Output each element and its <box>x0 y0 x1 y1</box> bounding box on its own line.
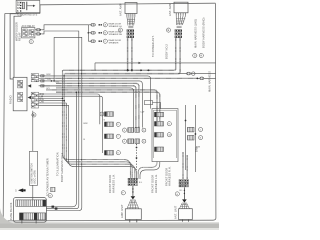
fan into ant unit box <box>179 203 189 209</box>
svg-text:MAIN HARNESS (LHD): MAIN HARNESS (LHD) <box>194 19 198 48</box>
neck marks 2 <box>177 26 182 27</box>
tee vertical node <box>87 25 89 41</box>
fuse block outline <box>13 198 46 223</box>
svg-text:(ACC or ON): (ACC or ON) <box>34 170 37 183</box>
cluster dark dots structure 2 <box>176 30 182 37</box>
connector block inside top-left box <box>22 2 24 9</box>
svg-text:HARNESS L.H.: HARNESS L.H. <box>154 174 158 193</box>
amp unit box <box>125 209 141 220</box>
ladder row 2 connector <box>105 134 114 139</box>
wire down v4 <box>69 105 137 178</box>
cluster dark dots bottom-right unit <box>180 180 188 187</box>
fan hatch 2 <box>176 19 185 23</box>
svg-text:ANT. UNIT: ANT. UNIT <box>173 205 177 219</box>
svg-text:L/R: L/R <box>48 79 52 81</box>
svg-text:TO POWER ANTENNA TIMER: TO POWER ANTENNA TIMER <box>45 158 49 196</box>
wire down v1 from bus <box>63 70 131 178</box>
relay box U1 <box>22 28 35 38</box>
wire down v3 <box>66 103 134 178</box>
shielded row y92.2 <box>56 92 160 121</box>
junction dots on v1/v2 <box>62 98 64 100</box>
black triangle neck <box>131 196 136 199</box>
letters in circles <box>33 114 202 198</box>
ladder row 3 connector <box>105 151 114 156</box>
cluster rows <box>128 178 138 180</box>
connector cluster rows 2 <box>175 30 182 32</box>
svg-text:SPEAKER: SPEAKER <box>109 41 119 44</box>
pins under amp box 1 <box>127 14 135 17</box>
row syms upper <box>41 75 44 77</box>
svg-text:BODY HARNESS NO.2: BODY HARNESS NO.2 <box>60 153 64 182</box>
ladder row 0 <box>155 112 164 117</box>
plain wire y62.9 with inline arrow <box>95 62 216 64</box>
svg-text:SPEAKER RH: SPEAKER RH <box>109 33 123 36</box>
stub wires upper group <box>39 76 45 86</box>
circled letter G <box>193 53 197 57</box>
svg-text:FUSE BLOCK: FUSE BLOCK <box>9 202 13 220</box>
svg-text:H: H <box>200 55 202 58</box>
svg-text:MAIN HARNESS: MAIN HARNESS <box>208 71 212 92</box>
vertical wire r2 <box>194 105 196 172</box>
external connector column lower block (grid) <box>31 92 38 108</box>
cluster rows right <box>179 180 189 182</box>
svg-text:IGNITION SWITCH: IGNITION SWITCH <box>32 163 34 183</box>
wire with arrow inside top-left box <box>27 5 33 7</box>
connector symbol on wire B <box>37 33 40 35</box>
relay right grid cell <box>29 30 34 37</box>
shielded bus y70.3 left part <box>64 69 134 71</box>
wire relay out B (lower) <box>35 33 37 35</box>
page border frame left <box>3 14 6 221</box>
wire relay out A (upper) <box>35 29 37 31</box>
wire A run to speaker tee <box>42 25 89 30</box>
fuse row bottom <box>20 213 46 220</box>
svg-text:SPEAKER LH: SPEAKER LH <box>109 25 123 28</box>
shielded row y89.9 <box>47 90 158 122</box>
black arrow connector lower <box>28 96 32 99</box>
shielded pair down from structure 1 <box>127 38 129 71</box>
wire second vertical to radio <box>14 13 21 78</box>
black arrow connector upper <box>28 84 32 87</box>
fuse out wire 1 turning up long vertical <box>46 92 76 207</box>
connector symbol on wire A <box>37 29 40 31</box>
row 2 connector + circle <box>188 135 195 140</box>
svg-text:BODY NO.2: BODY NO.2 <box>164 44 168 59</box>
amp box 2 <box>174 2 188 13</box>
shielded pair down from structure 2 with corner left <box>133 38 176 70</box>
svg-text:J: J <box>200 129 201 131</box>
svg-text:BODY HARNESS (RHD): BODY HARNESS (RHD) <box>202 18 206 48</box>
circled number 5 under relay <box>29 40 33 44</box>
row y96.2 corner down to left ladder <box>46 96 103 112</box>
scan shadow bottom band <box>0 223 219 228</box>
legs below fuse block <box>22 220 36 224</box>
wire x54 vertical down to radio rows <box>53 37 55 81</box>
radio connector block upper (grid) <box>18 80 23 88</box>
svg-text:RADIO: RADIO <box>8 95 12 104</box>
small relay box mid right <box>145 101 153 105</box>
circled letter <box>121 191 125 195</box>
pair row 1 blocks <box>128 128 134 133</box>
branch 3 wire <box>88 40 91 42</box>
ladder row 3 <box>155 147 164 152</box>
scan shadow bottom-left curve <box>0 208 14 224</box>
feed verticals <box>100 112 103 153</box>
circled letter right of fuse block <box>48 194 52 198</box>
page border frame left jog under top-left box <box>5 13 40 15</box>
dotted vertical below clusters <box>136 144 138 170</box>
page border frame bottom <box>6 219 213 222</box>
pair row 2 blocks <box>128 139 134 144</box>
junction dots near col <box>51 80 53 82</box>
ladder row 1 <box>155 122 164 127</box>
svg-text:G: G <box>194 55 196 58</box>
shielded row y85.8 <box>45 86 136 128</box>
svg-text:D: D <box>120 29 122 32</box>
wire B long run then corner down at x78.8 to fuse block <box>42 31 79 209</box>
branch 2 connector <box>91 32 96 35</box>
capacitor-style bar element <box>26 2 28 11</box>
ant unit box <box>179 209 193 220</box>
relay left grid cell <box>23 29 28 36</box>
ignition switch tall box <box>30 151 38 185</box>
svg-text:TO ILLUMINATION: TO ILLUMINATION <box>56 152 60 176</box>
page border frame top <box>40 3 215 13</box>
black triangle neck right <box>182 199 187 202</box>
svg-text:B/W: B/W <box>84 123 88 125</box>
svg-text:RELAY: RELAY <box>17 32 21 41</box>
svg-text:TO POWER ANT.: TO POWER ANT. <box>151 35 155 57</box>
cluster dark dots bottom-left unit <box>129 179 137 186</box>
circled number under column <box>32 113 36 117</box>
junction dots on bus <box>127 69 129 71</box>
row y94 corner down to left ladder <box>46 94 100 112</box>
vertical from y62.9 wire to bus <box>94 63 96 70</box>
wire y73.6 right extension with connector <box>178 73 216 75</box>
amp box 1 <box>125 3 137 14</box>
svg-text:ANT. AMP: ANT. AMP <box>119 3 123 16</box>
connector cluster rows 1 <box>127 30 134 32</box>
svg-text:B/W: B/W <box>196 147 200 149</box>
scattered tiny wire-color labels <box>47 74 200 192</box>
stub wires lower group <box>39 94 69 105</box>
external connector column upper block (grid) <box>31 74 38 82</box>
wires from right-ladder box bottom curving into amp-unit band <box>138 162 160 179</box>
fuse row top <box>16 200 46 207</box>
connector syms on fuse wires <box>52 206 55 208</box>
legs <box>182 220 188 222</box>
wire row y75.9 <box>45 76 151 109</box>
pin dots inside top-left box <box>20 2 21 12</box>
wire switch to fuse block <box>32 185 34 200</box>
fan trapezoid 1 <box>127 17 135 26</box>
ladder row 1 connector <box>105 122 114 127</box>
shielded feed band right <box>182 152 184 179</box>
wire down v2 from bus <box>64 74 132 178</box>
circled numbers right of middle clusters <box>142 128 146 132</box>
circled letter <box>175 192 179 196</box>
radio connector block lower (grid) <box>18 92 23 101</box>
dark cells bottom row <box>20 213 24 220</box>
wire row y78.4 shielded <box>45 77 197 79</box>
ladder row 2 <box>155 133 164 138</box>
branch 1 wire <box>88 24 91 26</box>
pair row 2 circle left <box>122 139 126 143</box>
fan hatch 1 <box>128 20 136 24</box>
radio box <box>13 77 27 111</box>
pins under amp box 2 <box>176 13 185 16</box>
branch 3 connector <box>91 40 96 43</box>
svg-text:B/W: B/W <box>47 74 51 76</box>
connector box (top-left, illumination source) <box>16 0 40 12</box>
wire row y80.9 <box>45 81 142 128</box>
svg-text:R/G: R/G <box>56 82 60 84</box>
neck marks 1 <box>128 27 133 28</box>
small page-link box right of arrow <box>51 187 55 191</box>
ladder row 0 connector <box>105 112 114 117</box>
branch 1 connector <box>91 24 96 27</box>
svg-text:HARNESS R.H.: HARNESS R.H. <box>168 166 172 186</box>
legs <box>130 220 137 223</box>
circled letter E <box>166 28 170 32</box>
svg-text:HARNESS L.H.: HARNESS L.H. <box>111 174 115 193</box>
wire radio to switch box <box>32 111 34 152</box>
cluster dark dots structure 1 <box>128 30 134 37</box>
circled letter H <box>199 53 203 57</box>
fan trapezoid 2 <box>176 16 185 25</box>
right ladder box outline <box>152 109 178 162</box>
wire C corner run x54->81.8 down to fuse block <box>46 37 81 210</box>
svg-text:G: G <box>176 194 178 196</box>
page border frame right <box>213 3 216 220</box>
page ref black arrow <box>18 188 23 192</box>
dark cell top right <box>43 200 46 207</box>
circled letter D <box>118 28 122 32</box>
fan into unit box <box>127 199 139 208</box>
vertical wire r1 <box>185 105 187 170</box>
shielded row y83.4 <box>56 83 139 127</box>
row 1 connector + circle <box>188 127 195 132</box>
circled letter on y73.6 wire <box>192 72 196 76</box>
pair row 1 circle left <box>122 128 126 132</box>
svg-text:ANT. AMP: ANT. AMP <box>168 3 172 16</box>
row y87.9 <box>56 88 133 128</box>
svg-text:L/W: L/W <box>141 112 145 114</box>
branch 2 wire <box>88 32 91 34</box>
svg-text:AMP. UNIT: AMP. UNIT <box>120 204 124 218</box>
wire from top-left box down-left (pair) <box>10 13 18 79</box>
